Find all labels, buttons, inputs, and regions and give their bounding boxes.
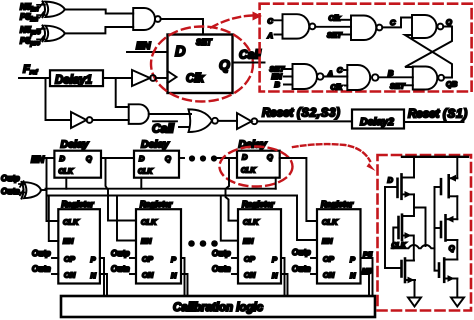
XOR gate U4 (Outp,Outn): [19, 181, 41, 198]
svg-text:Q: Q: [219, 57, 230, 73]
wire XOR2 to NAND G1: [64, 27, 133, 33]
red dashed arrow to bottom detail box: [293, 144, 376, 171]
wire G12 C stub: [344, 69, 347, 71]
wire G7 output to G8: [315, 26, 351, 28]
svg-text:Q: Q: [165, 154, 171, 163]
wire CLK gate tap: [393, 228, 398, 249]
svg-text:Q: Q: [86, 154, 92, 163]
XOR gate U2 (N5pro,P5pro): [43, 26, 65, 42]
svg-text:D: D: [139, 154, 145, 163]
wire G8 output to G9: [382, 18, 412, 28]
svg-text:B: B: [275, 80, 281, 89]
svg-text:Clk: Clk: [329, 14, 342, 23]
wire left gate bus (D to M3): [385, 187, 402, 268]
wire dots to DL3 D: [218, 157, 238, 159]
wire R4 N output (N5): [361, 274, 370, 294]
wire Delay1 to inverter: [103, 77, 132, 79]
inverter G6: [237, 113, 257, 129]
delay cell DL2: [134, 151, 179, 178]
wire Fref branch down to inverter G3: [46, 78, 72, 120]
wire delay DL3 clk pin: [275, 178, 277, 189]
svg-text:EN: EN: [141, 237, 152, 246]
NAND gate G9 (SR top): [412, 15, 443, 38]
svg-text:EN: EN: [136, 40, 151, 52]
svg-text:Outn: Outn: [212, 265, 231, 274]
svg-text:ON: ON: [64, 271, 76, 280]
svg-text:QB: QB: [446, 80, 458, 89]
svg-text:Clk: Clk: [186, 73, 205, 85]
NAND gate G10 (SR bottom): [413, 67, 444, 90]
svg-text:N: N: [272, 271, 278, 280]
wire G6 to Delay2: [257, 120, 352, 122]
register R4 box: [317, 209, 361, 283]
svg-text:Q: Q: [267, 153, 273, 162]
wire M5 to M6: [456, 240, 458, 260]
wire Delay1 branch down to AND G4: [116, 78, 129, 107]
calibration logic box: [61, 296, 375, 317]
svg-text:CLK: CLK: [243, 218, 259, 227]
transistor M5: [435, 215, 458, 240]
NOR gate G5: [189, 109, 218, 132]
red dashed ellipse around DL3: [220, 147, 293, 187]
D flip-flop U3 box: [168, 35, 233, 94]
delay cell DL1: [54, 151, 101, 178]
wire delay DL1 clk pin: [65, 178, 67, 189]
svg-text:D: D: [242, 153, 248, 162]
svg-text:D: D: [388, 176, 394, 185]
wire R4 P output (P5): [361, 258, 373, 294]
red dashed arrow to top detail box: [211, 12, 262, 28]
transistor M4: [435, 175, 458, 197]
wire G8 SET stub: [341, 34, 351, 36]
wire rail to M1: [413, 157, 415, 178]
wire register R3 EN tap: [221, 196, 238, 241]
wire Cali-bar stub to NOR G5: [179, 126, 189, 128]
svg-text:Reset(S2,S3): Reset(S2,S3): [262, 108, 341, 120]
wire EN to delay cell DL1: [45, 157, 54, 159]
wire EN vertical from EN wire: [46, 158, 48, 196]
wire register R1 EN tap: [49, 196, 59, 242]
wire M6 to ground: [456, 279, 458, 298]
Delay2 box: [352, 110, 404, 129]
svg-text:OP: OP: [244, 255, 256, 264]
svg-text:Q: Q: [446, 18, 452, 27]
transistor M6: [439, 259, 457, 282]
wire R3 N output: [281, 274, 288, 296]
svg-text:Delay: Delay: [141, 139, 170, 151]
register R3 box: [238, 209, 281, 283]
wire G12 Clk stub: [345, 85, 347, 87]
transistor M2 (gate CLK): [399, 215, 414, 240]
svg-text:Register: Register: [140, 200, 173, 209]
wire R2 N output: [181, 274, 188, 296]
wire G5 to inverter G6: [218, 120, 237, 122]
AND gate G4: [129, 104, 149, 124]
wire M3 to ground: [414, 280, 416, 298]
dots ellipsis register row: [188, 240, 218, 247]
XOR gate U1 (N5int,P5int): [43, 1, 65, 17]
Delay1 box: [50, 70, 103, 86]
svg-text:Register: Register: [62, 200, 95, 209]
wire R4 OP stub: [311, 257, 317, 259]
svg-text:EN: EN: [63, 237, 74, 246]
svg-text:SET: SET: [196, 38, 213, 47]
svg-text:Outn: Outn: [111, 265, 130, 274]
wire CLK with crossing humps: [392, 245, 435, 248]
wire M4 to M5: [456, 196, 458, 219]
wire G10 SET stub: [405, 84, 413, 86]
svg-text:ON: ON: [323, 271, 335, 280]
register R2 box: [136, 209, 181, 283]
svg-text:EN: EN: [243, 237, 254, 246]
inverter G3: [71, 112, 92, 128]
wire R1 P output: [100, 258, 104, 296]
wire register R1 CLK tap: [47, 189, 59, 221]
wire Q output (Cali): [233, 62, 265, 64]
wire G8 Clk stub: [341, 19, 351, 21]
svg-text:ON: ON: [142, 271, 154, 280]
svg-text:OP: OP: [323, 255, 335, 264]
red dashed ellipse around U3: [151, 27, 253, 102]
wire R3 OP stub: [232, 257, 238, 259]
wire M1 to M2: [413, 194, 415, 216]
dots ellipsis delay row: [189, 155, 217, 161]
wire XOR1 to NAND G1: [64, 10, 133, 14]
svg-text:Delay2: Delay2: [360, 116, 394, 128]
svg-text:Outp: Outp: [212, 249, 231, 258]
wire XOR2 inputs with slash ticks: [37, 26, 45, 42]
wire XOR U4 output to CLK bus: [41, 189, 46, 191]
svg-text:B: B: [388, 69, 394, 78]
wire G7 input stubs: [275, 20, 283, 34]
svg-text:EN: EN: [31, 155, 45, 166]
wire QB cross to G9 input: [405, 35, 452, 78]
wire Delay2 output: [404, 121, 464, 123]
svg-text:D: D: [60, 154, 66, 163]
wire R2 ON stub: [130, 273, 136, 275]
svg-text:Cali: Cali: [239, 48, 262, 62]
wire Q output and cross to G10: [405, 27, 452, 68]
svg-text:N: N: [91, 271, 97, 280]
svg-text:Outn: Outn: [292, 265, 311, 274]
svg-text:CLK: CLK: [59, 169, 74, 176]
wire R2 OP stub: [130, 257, 136, 259]
wire R1 ON stub: [52, 273, 58, 275]
wire G11 input stubs: [284, 69, 293, 85]
svg-text:OP: OP: [142, 255, 154, 264]
wire delay DL2 clk pin: [140, 178, 142, 189]
svg-text:Register: Register: [321, 200, 354, 209]
wire register R3 CLK tap from DL2 Q: [226, 158, 239, 221]
svg-text:ON: ON: [244, 271, 256, 280]
wire register R2 EN tap: [117, 196, 136, 241]
wire XOR1 inputs with slash ticks: [37, 2, 45, 18]
wire R2 P output: [181, 258, 185, 296]
wire G1 output to SET of U3: [161, 19, 203, 35]
svg-text:N: N: [171, 271, 177, 280]
svg-text:CLK: CLK: [141, 218, 157, 227]
wire R3 P output: [281, 258, 285, 296]
wire VDD rail: [402, 156, 468, 158]
svg-text:Outp: Outp: [1, 174, 20, 183]
wire R4 ON stub: [311, 273, 317, 275]
wire mid node jog: [414, 208, 426, 247]
inverter G2: [132, 70, 156, 86]
svg-text:Outp: Outp: [32, 249, 51, 258]
svg-text:Q: Q: [449, 244, 455, 253]
NAND gate G7 (C,A): [283, 14, 316, 38]
svg-text:D: D: [175, 44, 186, 60]
wire Fref to Delay1: [19, 77, 50, 79]
svg-text:OP: OP: [64, 255, 76, 264]
svg-text:Outn: Outn: [1, 187, 20, 196]
wire DL1 Q to DL2 D: [101, 157, 134, 159]
NAND gate G11 (SET,EN,B): [293, 64, 324, 89]
svg-text:CLK: CLK: [241, 168, 256, 175]
delay cell DL3: [237, 151, 280, 178]
svg-text:C: C: [268, 17, 274, 26]
wire right gate bus: [435, 187, 440, 271]
svg-text:Outp: Outp: [292, 248, 311, 257]
wire R1 OP stub: [52, 257, 58, 259]
transistor M3 (gate D): [402, 259, 416, 284]
svg-text:CLK: CLK: [63, 218, 79, 227]
svg-text:Outn: Outn: [32, 265, 51, 274]
ground symbol left: [408, 298, 421, 307]
bottom detail red dashed box (delay cell transistors): [378, 155, 472, 311]
wire G11 output to G12: [323, 76, 347, 78]
ground symbol right: [451, 298, 464, 307]
register R1 box: [58, 209, 100, 283]
wire rail to M4: [456, 157, 458, 178]
NAND gate G12 (C,A,Clk): [347, 65, 378, 90]
svg-text:CLK: CLK: [322, 218, 338, 227]
svg-text:Delay1: Delay1: [55, 75, 92, 87]
wire DL3 Q to register R4 clk: [280, 158, 317, 221]
node Cali-bar label: [152, 121, 177, 135]
wire G3 to AND G4: [93, 119, 129, 121]
wire R3 ON stub: [232, 273, 238, 275]
wire G12 output to G10: [378, 76, 412, 78]
svg-text:Cali: Cali: [152, 122, 175, 136]
wire inverter to Clk: [156, 77, 168, 79]
svg-text:Delay: Delay: [61, 139, 90, 151]
svg-text:EN: EN: [322, 237, 333, 246]
svg-text:Calibration logic: Calibration logic: [173, 302, 264, 314]
svg-text:Outp: Outp: [111, 249, 130, 258]
svg-text:Clk: Clk: [331, 83, 344, 92]
wire register R2 CLK tap from DL1 Q: [106, 158, 137, 221]
svg-text:C: C: [337, 66, 343, 75]
transistor M1 (gate D): [385, 174, 414, 198]
wire G4 output to NOR G5: [149, 113, 191, 115]
svg-text:A: A: [267, 31, 273, 40]
wire CLK bus: [46, 188, 276, 190]
svg-text:CLK: CLK: [138, 169, 153, 176]
wire EN to D input: [127, 51, 168, 53]
NAND gate G1: [133, 8, 161, 30]
wire DL2 Q to dots: [179, 157, 184, 159]
wire R1 N output: [100, 274, 107, 296]
top detail red dashed box (DFF internals): [260, 4, 472, 92]
NAND gate G8 (Clk,C-int,SET): [351, 16, 382, 41]
svg-text:Reset(S1): Reset(S1): [408, 109, 468, 121]
svg-text:C: C: [390, 18, 396, 27]
wire EN bus: [47, 195, 298, 197]
wire register R4 EN tap: [297, 196, 317, 241]
wire M2 to M3: [413, 236, 415, 261]
svg-text:Register: Register: [242, 200, 275, 209]
svg-text:N: N: [350, 271, 356, 280]
